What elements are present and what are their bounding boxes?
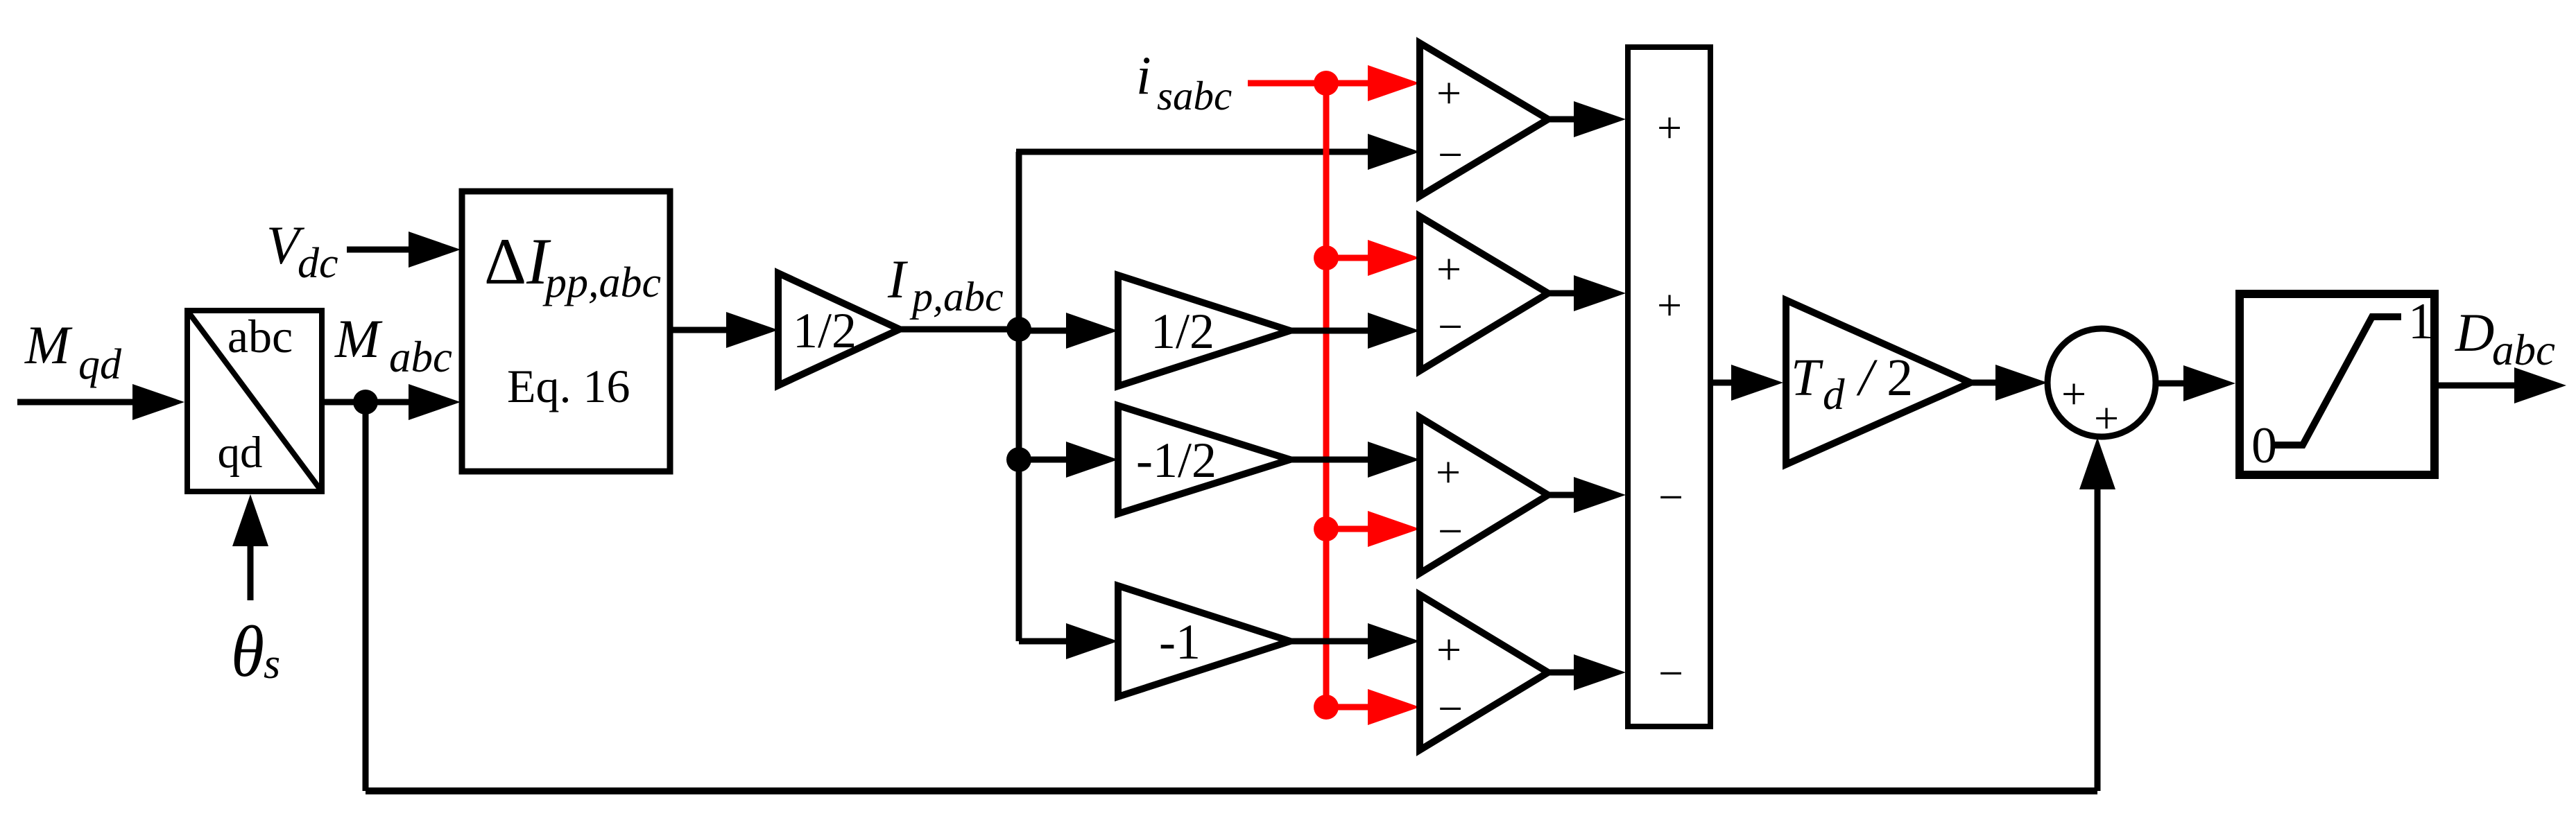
wire red stub row C	[1326, 526, 1368, 532]
arrowhead into gain -1/2	[1066, 442, 1118, 478]
svg-text:T: T	[1791, 349, 1823, 407]
arrowhead into gain 1/2 second	[1066, 313, 1118, 349]
svg-text:D: D	[2455, 302, 2494, 363]
svg-text:+: +	[2094, 394, 2119, 443]
arrowhead into summer A minus	[1368, 134, 1420, 170]
wire branch vertical	[1016, 152, 1022, 641]
node red row D	[1314, 695, 1339, 720]
arrowhead theta_s up	[232, 494, 268, 546]
block adder column	[1628, 47, 1710, 726]
wire summer A out	[1548, 116, 1574, 123]
svg-text:p,abc: p,abc	[909, 274, 1004, 320]
arrowhead into summing circle	[1995, 365, 2047, 401]
arrowhead A into adder box	[1574, 101, 1626, 137]
arrowhead into abc/qd block	[132, 384, 184, 420]
wire row4 to gain -1	[1019, 638, 1067, 645]
svg-text:-1/2: -1/2	[1136, 433, 1217, 488]
arrowhead D into adder box	[1574, 654, 1626, 690]
summer A triangle	[1420, 43, 1548, 196]
wire i_sabc red input	[1248, 80, 1368, 87]
svg-text:s: s	[264, 641, 280, 688]
svg-text:+: +	[1436, 69, 1461, 118]
wire D_abc output	[2435, 383, 2515, 389]
arrowhead red into summer C minus	[1368, 511, 1420, 547]
svg-text:+: +	[1657, 103, 1682, 153]
svg-text:-1: -1	[1159, 614, 1201, 670]
node red junction top	[1314, 71, 1339, 96]
wire row3 to gain -1/2	[1019, 457, 1067, 463]
svg-text:qd: qd	[78, 341, 122, 388]
gain Td/2	[1786, 300, 1970, 464]
label M_qd	[24, 315, 122, 388]
summer circle	[2047, 329, 2156, 443]
svg-text:−: −	[1658, 649, 1683, 698]
arrowhead C into adder box	[1574, 477, 1626, 513]
arrowhead red into summer D minus	[1368, 689, 1420, 725]
svg-text:sabc: sabc	[1157, 73, 1232, 119]
label V_dc	[266, 215, 338, 287]
node red row B	[1314, 245, 1339, 270]
wire gain3 to summer C	[1290, 457, 1368, 463]
wire adder out	[1710, 380, 1732, 386]
label theta_s	[231, 611, 280, 692]
svg-text:+: +	[1436, 625, 1461, 674]
svg-text:−: −	[1658, 473, 1683, 522]
svg-text:i: i	[1136, 45, 1151, 105]
wire feedback down from M_abc	[363, 402, 369, 791]
block abc->qd transform	[187, 310, 322, 491]
gain -1/2	[1118, 406, 1290, 514]
arrowhead into gain Td/2	[1731, 365, 1783, 401]
block delta-I Eq.16	[462, 191, 670, 471]
svg-text:abc: abc	[227, 310, 293, 363]
wire gain to node I_p	[900, 326, 1019, 333]
svg-text:Eq. 16: Eq. 16	[507, 360, 630, 412]
svg-text:−: −	[1438, 130, 1463, 180]
svg-text:M: M	[24, 315, 73, 375]
wire abc/qd to Eq16	[322, 399, 409, 406]
arrowhead into saturation block	[2183, 365, 2235, 401]
wire summer B out	[1548, 290, 1574, 297]
wire Td/2 to summing circle	[1970, 380, 1996, 386]
svg-text:−: −	[1438, 684, 1463, 733]
node M_abc junction	[353, 390, 378, 415]
block saturation	[2240, 293, 2435, 475]
wire M_qd input	[17, 399, 133, 406]
arrowhead into summer D plus	[1368, 623, 1420, 659]
label D_abc	[2455, 302, 2555, 374]
svg-text:abc: abc	[2492, 326, 2555, 374]
arrowhead feedback into circle bottom	[2079, 437, 2115, 489]
svg-text:dc: dc	[298, 240, 338, 287]
arrowhead output	[2514, 367, 2566, 403]
svg-text:+: +	[2061, 369, 2086, 419]
wire red stub row D	[1326, 704, 1368, 711]
svg-text:+: +	[1436, 448, 1461, 497]
arrowhead V_dc into Eq16	[409, 232, 461, 268]
svg-text:/ 2: / 2	[1856, 349, 1913, 407]
svg-text:ΔI: ΔI	[484, 225, 551, 298]
wire row2 to gain 1/2	[1019, 328, 1067, 334]
svg-text:θ: θ	[231, 611, 264, 692]
summer C triangle	[1420, 417, 1548, 573]
wire circle to saturation	[2156, 381, 2184, 387]
node red row C	[1314, 516, 1339, 541]
wire V_dc input	[347, 247, 409, 253]
gain -1	[1118, 586, 1290, 697]
node branch row3	[1006, 447, 1031, 472]
summer D triangle	[1420, 595, 1548, 750]
svg-text:+: +	[1657, 281, 1682, 330]
wire red stub row B	[1326, 255, 1368, 261]
svg-text:I: I	[887, 249, 909, 309]
label I_p,abc	[887, 249, 1004, 320]
svg-text:0: 0	[2251, 417, 2277, 474]
svg-text:d: d	[1823, 370, 1845, 419]
svg-text:1/2: 1/2	[793, 303, 857, 358]
summer B triangle	[1420, 216, 1548, 371]
label M_abc	[334, 308, 452, 381]
svg-text:+: +	[1436, 245, 1461, 294]
label i_sabc	[1136, 45, 1232, 119]
wire theta_s input	[248, 546, 254, 600]
wire Eq16 to gain 1/2	[670, 327, 727, 333]
wire summer D out	[1548, 670, 1574, 676]
svg-text:−: −	[1438, 302, 1463, 351]
svg-text:pp,abc: pp,abc	[542, 259, 661, 306]
svg-text:qd: qd	[218, 428, 263, 478]
wire gain4 to summer D	[1290, 638, 1368, 645]
svg-text:M: M	[334, 308, 383, 369]
wire feedback bottom run	[366, 787, 2097, 794]
wire red vertical	[1323, 83, 1330, 707]
svg-text:abc: abc	[389, 333, 452, 381]
wire top row to summer A	[1016, 149, 1368, 155]
arrowhead into Eq16	[409, 384, 461, 420]
node I_p,abc junction	[1006, 317, 1031, 342]
gain 1/2 first	[778, 273, 900, 385]
svg-text:1/2: 1/2	[1151, 304, 1214, 359]
arrowhead into summer B minus	[1368, 313, 1420, 349]
svg-text:−: −	[1438, 507, 1463, 556]
arrowhead into summer C plus	[1368, 442, 1420, 478]
wire feedback up to circle	[2095, 489, 2101, 791]
svg-text:1: 1	[2408, 293, 2434, 350]
wire gain2 to summer B	[1290, 328, 1368, 334]
arrowhead B into adder box	[1574, 275, 1626, 311]
arrowhead into gain -1	[1066, 623, 1118, 659]
arrowhead red into summer A plus	[1368, 65, 1420, 101]
arrowhead red into summer B plus	[1368, 240, 1420, 276]
arrowhead into gain 1/2	[726, 312, 778, 348]
gain 1/2 second	[1118, 275, 1290, 386]
wire summer C out	[1548, 492, 1574, 498]
